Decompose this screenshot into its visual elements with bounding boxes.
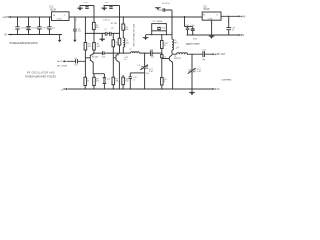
svg-text:47k: 47k [96,27,99,29]
svg-text:C10: C10 [84,2,89,4]
svg-text:O: O [64,15,66,17]
svg-text:470: 470 [96,81,100,83]
svg-text:C8: C8 [111,28,114,30]
svg-text:+9V: +9V [241,16,246,18]
svg-text:RF OUT: RF OUT [217,54,226,56]
svg-text:7MHz CRYSTAL OSC UNIT: 7MHz CRYSTAL OSC UNIT [132,23,135,47]
svg-text:4n7: 4n7 [146,73,150,75]
svg-text:5-30: 5-30 [149,71,154,73]
svg-text:COM: COM [57,19,62,21]
svg-text:1n: 1n [133,79,135,81]
svg-text:47k: 47k [88,46,91,48]
svg-text:RFC: RFC [174,42,179,44]
svg-text:78L09: 78L09 [50,10,57,12]
svg-text:78L05: 78L05 [203,9,210,11]
svg-text:AUDIO MODULATOR: AUDIO MODULATOR [186,42,201,45]
svg-text:IC1: IC1 [50,6,54,8]
svg-text:33k: 33k [115,81,118,83]
svg-text:0V: 0V [4,35,7,37]
svg-text:O: O [216,14,218,16]
svg-text:C20: C20 [202,49,207,51]
svg-text:IN: IN [53,15,56,17]
svg-text:4u7: 4u7 [74,65,78,67]
svg-text:R14: R14 [193,39,198,41]
svg-text:0V: 0V [217,89,220,91]
svg-text:C1 100n: C1 100n [20,27,28,29]
svg-text:15k: 15k [86,81,89,83]
svg-text:R5 22k: R5 22k [111,23,117,25]
svg-text:C4: C4 [52,27,55,29]
svg-text:56: 56 [163,81,166,83]
svg-text:C14: C14 [102,56,107,58]
svg-text:5-30: 5-30 [197,71,202,73]
svg-text:0V: 0V [241,35,244,37]
svg-text:IN: IN [203,14,206,16]
svg-text:1u: 1u [232,29,234,31]
svg-text:MIC LEVEL: MIC LEVEL [57,65,68,67]
svg-text:C13 10n: C13 10n [162,3,170,5]
svg-text:10u: 10u [126,42,129,44]
svg-text:X1 7.0MHz: X1 7.0MHz [153,21,163,23]
svg-text:1n: 1n [124,59,126,61]
svg-text:10p: 10p [202,59,206,61]
svg-text:L4: L4 [176,48,179,50]
svg-text:L5: L5 [138,65,141,67]
svg-text:L2: L2 [129,49,132,51]
svg-text:C3 10n: C3 10n [42,27,48,29]
svg-text:POWER AMPLIFIER STAGES: POWER AMPLIFIER STAGES [25,75,56,78]
svg-text:C2 100u: C2 100u [31,27,39,29]
svg-text:10p: 10p [151,56,155,58]
svg-text:2u2: 2u2 [107,79,111,81]
svg-text:10n: 10n [78,31,81,33]
svg-text:C7: C7 [104,29,107,31]
svg-text:50 OHM FEED: 50 OHM FEED [222,79,233,81]
svg-text:0V: 0V [61,89,64,91]
svg-text:C5: C5 [74,20,77,22]
svg-text:C19+: C19+ [190,25,196,27]
svg-text:4k7: 4k7 [97,46,101,48]
svg-text:AF IN: AF IN [57,60,63,63]
svg-text:100: 100 [125,81,129,83]
svg-text:C11: C11 [104,2,108,4]
svg-text:C16: C16 [149,49,154,51]
svg-text:10k: 10k [125,29,128,31]
svg-text:RF OSCILLATOR AND: RF OSCILLATOR AND [27,72,55,75]
svg-text:COM: COM [208,18,213,20]
svg-text:30p: 30p [162,27,166,29]
svg-text:T2: T2 [117,55,120,57]
svg-text:+12V: +12V [2,17,8,19]
svg-text:2N2219: 2N2219 [174,58,182,60]
svg-text:BC548: BC548 [92,57,99,59]
svg-text:22k: 22k [116,44,119,46]
svg-text:IC2: IC2 [203,6,207,8]
svg-text:1k: 1k [164,56,166,58]
svg-text:* 9V REGULATED MODULATOR: * 9V REGULATED MODULATOR [9,42,38,45]
svg-text:C12 0.1: C12 0.1 [103,20,111,22]
svg-text:1k: 1k [164,45,166,47]
